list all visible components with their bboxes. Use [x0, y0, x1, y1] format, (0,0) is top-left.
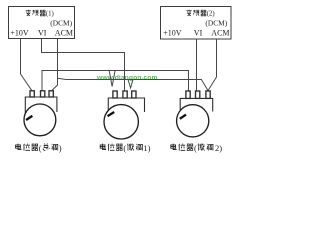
- svg-text:+10V: +10V: [163, 29, 182, 38]
- wire U2 ACM to RP3 right pin: [208, 39, 217, 91]
- svg-text:VI: VI: [194, 29, 203, 38]
- svg-text:(DCM): (DCM): [50, 19, 72, 28]
- svg-text:+10V: +10V: [10, 29, 29, 38]
- U1 title 变频器(1): [26, 10, 54, 18]
- U1 terminal ACM: [55, 29, 73, 38]
- U2 label (DCM): [205, 19, 227, 28]
- U2 terminal ACM: [211, 29, 229, 38]
- svg-text:ACM: ACM: [211, 29, 229, 38]
- svg-text:(DCM): (DCM): [205, 19, 227, 28]
- potentiometer RP2 (trim 1): [104, 91, 145, 139]
- U2 title 变频器(2): [186, 10, 214, 18]
- U2 terminal VI: [194, 29, 203, 38]
- svg-text:): ): [59, 143, 62, 153]
- watermark: [96, 74, 158, 81]
- svg-text:(: (: [39, 143, 42, 153]
- svg-text:1): 1): [143, 143, 150, 153]
- svg-text:(: (: [194, 143, 197, 153]
- svg-text:VI: VI: [38, 29, 47, 38]
- U1 label (DCM): [50, 19, 72, 28]
- wire RP1 wiper bus to RP3 left pin: [42, 71, 189, 92]
- inverter box U2 (变频器(2)): [161, 7, 232, 40]
- svg-text:(1): (1): [46, 10, 54, 17]
- wire common bus from U1 ACM: [58, 78, 209, 90]
- wire common bus tap to RP2 right pin: [128, 80, 133, 89]
- svg-text:(: (: [123, 143, 126, 153]
- RP3 label 电位器(微调2): [171, 143, 222, 153]
- U1 terminal +10V: [10, 29, 29, 38]
- RP2 label 电位器(微调1): [100, 143, 150, 153]
- U2 terminal +10V: [163, 29, 182, 38]
- svg-text:2): 2): [215, 143, 222, 153]
- inverter box U1 (变频器(1)): [9, 7, 75, 39]
- svg-text:(2): (2): [207, 10, 215, 17]
- svg-text:www.diangon.com: www.diangon.com: [96, 74, 158, 81]
- U1 terminal VI: [38, 29, 47, 38]
- potentiometer RP3 (trim 2): [177, 91, 213, 137]
- RP1 label 电位器(总调): [16, 143, 62, 153]
- potentiometer RP1 (master): [24, 91, 57, 136]
- wire U1 +10V to RP1 left pin: [21, 39, 33, 91]
- wire U2 VI to RP3 wiper: [196, 39, 198, 91]
- svg-text:ACM: ACM: [55, 29, 73, 38]
- wire U1 ACM to RP1 right pin: [51, 39, 57, 91]
- wire bus tap to RP2 left pin: [109, 71, 115, 87]
- wire U1 VI to RP2 wiper: [42, 39, 125, 91]
